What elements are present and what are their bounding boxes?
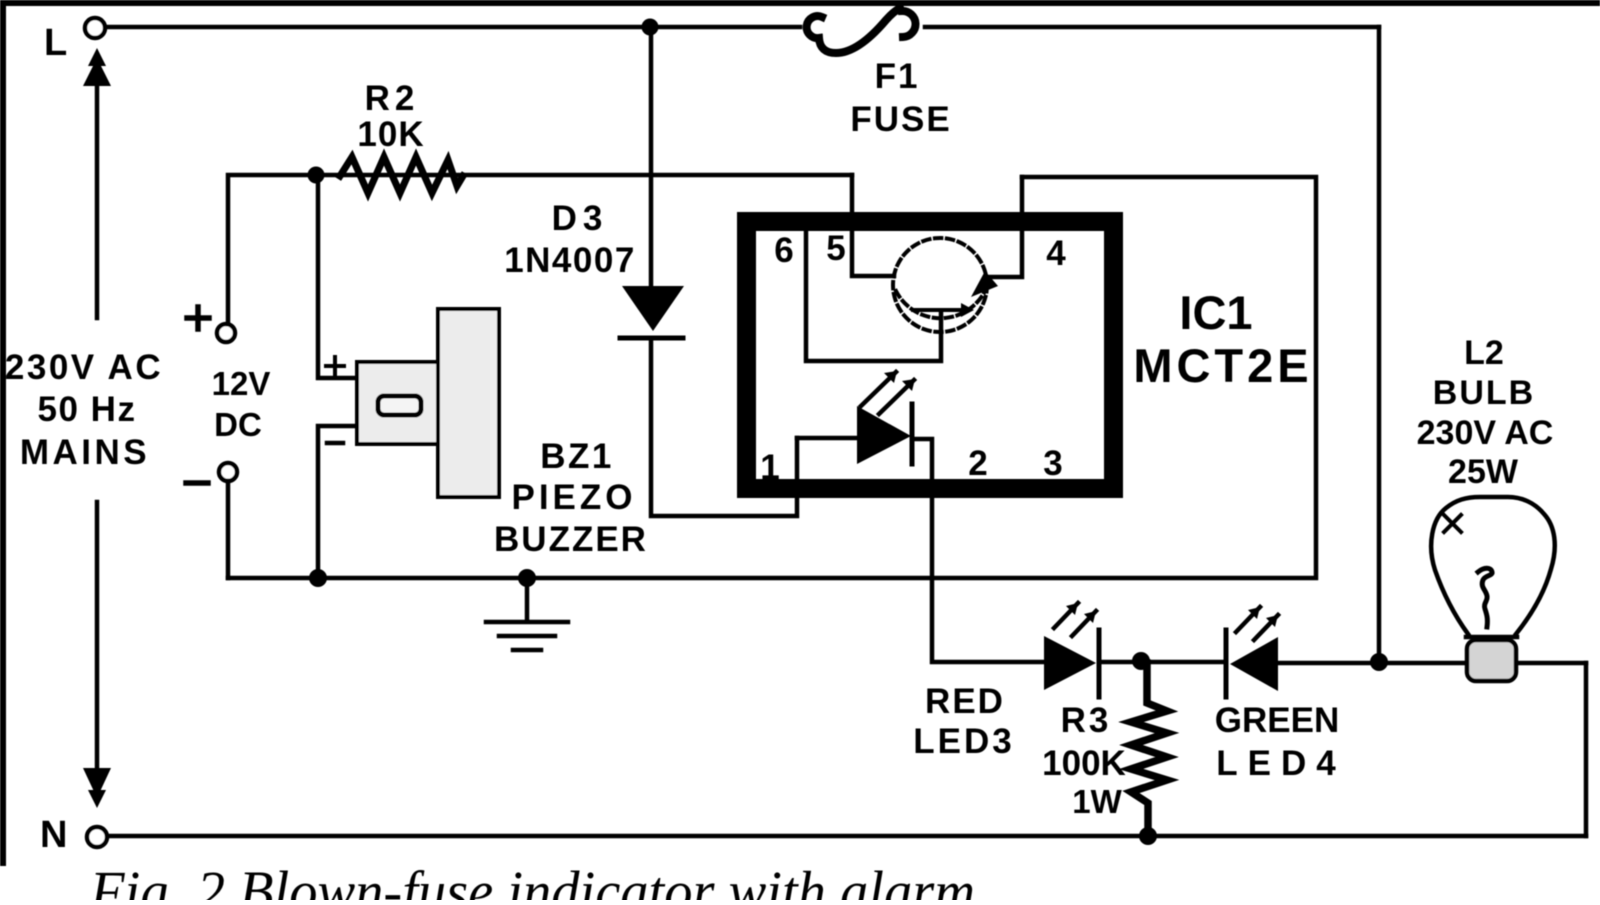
optocoupler IC1 box	[747, 222, 1114, 489]
ground	[486, 578, 568, 650]
junction dot ground rail	[518, 569, 536, 587]
diode D3 triangle	[622, 286, 684, 331]
svg-text:5: 5	[826, 229, 845, 268]
svg-text:1N4007: 1N4007	[504, 241, 636, 280]
svg-text:PIEZO: PIEZO	[511, 478, 636, 517]
transistor Q1 base bar	[913, 308, 962, 312]
led inside IC anode wire	[797, 436, 858, 441]
wire minus terminal down	[226, 481, 231, 578]
wire right vertical from top	[1377, 27, 1382, 662]
wire pin4 drop	[986, 177, 1022, 277]
mains arrow up head	[83, 48, 111, 86]
svg-text:L2: L2	[1464, 334, 1504, 372]
led RED LED3 triangle	[1044, 636, 1096, 690]
lamp L2 sparkle	[1444, 515, 1461, 532]
svg-text:LED3: LED3	[913, 722, 1014, 761]
frame top border	[0, 0, 1600, 6]
wire led4 to bulb	[1278, 661, 1586, 666]
svg-text:BZ1: BZ1	[540, 437, 614, 476]
wire buzzer minus branch	[318, 426, 357, 578]
wire L top rail left	[106, 25, 800, 30]
wire led3 to led4	[1099, 660, 1223, 665]
svg-text:25W: 25W	[1448, 453, 1519, 491]
wire plus terminal up	[228, 175, 852, 324]
mains arrow down head	[83, 768, 111, 808]
label minus 12V	[186, 480, 208, 486]
svg-text:MAINS: MAINS	[20, 433, 150, 472]
junction dot bulb row	[1370, 653, 1388, 671]
led GREEN LED4 cathode bar	[1224, 630, 1229, 697]
svg-text:D3: D3	[552, 199, 609, 238]
lamp L2 filament	[1478, 568, 1492, 627]
transistor Q1 base bar arrow	[961, 303, 974, 317]
led inside IC triangle	[857, 406, 911, 464]
svg-text:FUSE: FUSE	[850, 100, 951, 139]
svg-text:Fig. 2 Blown-fuse indicator wi: Fig. 2 Blown-fuse indicator with alarm	[89, 859, 975, 900]
resistor R3	[1131, 663, 1167, 836]
label buzzer plus	[326, 357, 344, 375]
fuse F1	[807, 8, 916, 53]
wire emitter to pin6	[806, 230, 941, 361]
svg-text:R2: R2	[365, 79, 420, 118]
wire minus rail	[228, 177, 1316, 578]
frame left border	[0, 0, 6, 866]
svg-text:N: N	[40, 814, 67, 856]
lamp L2 base	[1467, 640, 1516, 681]
svg-text:4: 4	[1046, 234, 1066, 273]
svg-text:10K: 10K	[357, 115, 424, 154]
lamp L2 glass	[1431, 497, 1555, 637]
svg-text:R3: R3	[1061, 701, 1112, 740]
led RED LED3 cathode bar	[1097, 630, 1102, 697]
svg-text:100K: 100K	[1042, 744, 1126, 783]
buzzer BZ1 slot	[378, 396, 421, 415]
svg-text:F1: F1	[875, 57, 920, 96]
terminal 12V minus	[219, 463, 237, 481]
terminal N	[87, 827, 107, 847]
junction dot led3 r3	[1132, 652, 1150, 670]
buzzer BZ1 body	[357, 362, 438, 444]
junction dot D3 top	[642, 19, 659, 36]
wire L top rail right	[925, 25, 1379, 30]
svg-text:BULB: BULB	[1433, 374, 1535, 412]
svg-text:1: 1	[760, 448, 779, 487]
transistor Q1 collector arrow	[971, 271, 998, 297]
buzzer BZ1 plate	[438, 309, 499, 497]
wire N bottom rail	[108, 834, 1586, 839]
svg-text:DC: DC	[214, 406, 262, 443]
svg-text:RED: RED	[925, 682, 1005, 721]
junction dot R2 left	[308, 167, 325, 184]
svg-text:6: 6	[774, 231, 793, 270]
diode D3 cathode bar	[620, 336, 683, 341]
svg-text:12V: 12V	[212, 365, 271, 402]
wire pin2 down	[912, 439, 1044, 662]
wire buzzer plus branch	[318, 175, 357, 378]
diode D3 line	[651, 27, 797, 516]
svg-text:230V AC: 230V AC	[1417, 414, 1554, 452]
label plus 12V	[187, 307, 209, 329]
led GREEN LED4 triangle	[1230, 637, 1278, 691]
svg-text:LED4: LED4	[1216, 744, 1345, 783]
svg-text:L: L	[44, 22, 67, 64]
mains arrow line	[95, 62, 100, 794]
resistor R2	[340, 157, 463, 193]
label buzzer minus	[327, 441, 343, 446]
wire pin5 base	[852, 175, 894, 276]
svg-text:2: 2	[968, 444, 987, 483]
svg-text:GREEN: GREEN	[1215, 701, 1339, 740]
led RED LED3 arrows	[1054, 603, 1096, 636]
wire right side down	[1584, 663, 1589, 836]
svg-text:3: 3	[1043, 444, 1062, 483]
junction dot R3 bottom	[1139, 827, 1157, 845]
svg-text:IC1: IC1	[1179, 286, 1252, 339]
led inside IC cathode bar	[910, 404, 915, 464]
terminal 12V plus	[217, 324, 235, 342]
svg-text:230V AC: 230V AC	[5, 348, 163, 387]
svg-text:50 Hz: 50 Hz	[38, 390, 137, 429]
transistor Q1 second arc	[896, 291, 985, 318]
svg-text:1W: 1W	[1072, 783, 1122, 820]
junction dot buzzer rail	[309, 569, 327, 587]
terminal L	[85, 18, 105, 38]
led inside IC arrows	[861, 372, 914, 414]
transistor Q1 circle	[893, 238, 987, 332]
svg-text:MCT2E: MCT2E	[1133, 339, 1312, 392]
svg-text:BUZZER: BUZZER	[494, 520, 648, 559]
led GREEN LED4 arrows	[1236, 607, 1278, 640]
